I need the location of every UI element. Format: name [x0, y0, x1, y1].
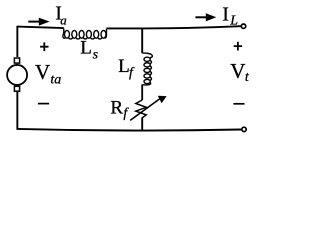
- label Rf: [110, 97, 129, 121]
- label Vta: [35, 60, 61, 88]
- wire: field branch lower: [141, 117, 143, 130]
- wire: left rail lower: [16, 92, 18, 130]
- dc machine brush top: [14, 58, 19, 63]
- svg-text:t: t: [245, 70, 250, 85]
- plus sign left: [40, 42, 48, 51]
- minus sign left: [38, 103, 49, 105]
- plus sign right: [234, 42, 242, 51]
- current arrow Ia: [28, 18, 49, 26]
- inductor Ls coil loops: [65, 30, 70, 38]
- wire: field branch upper: [141, 28, 143, 53]
- inductor Ls coil wire arcs: [63, 28, 107, 39]
- svg-text:s: s: [93, 47, 99, 62]
- dc machine armature circle: [7, 65, 27, 85]
- dc machine brush bottom: [14, 86, 19, 91]
- terminal: bottom right: [242, 127, 246, 131]
- svg-text:L: L: [118, 56, 130, 77]
- label Vt: [230, 59, 250, 85]
- svg-text:V: V: [230, 59, 245, 83]
- label Lf: [118, 56, 135, 81]
- wire: top rail left segment: [17, 27, 64, 29]
- wire: left rail upper: [16, 26, 18, 57]
- wire: bottom rail: [17, 129, 241, 131]
- svg-text:I: I: [222, 4, 229, 26]
- wire: field branch middle: [141, 85, 143, 101]
- inductor Lf coil wire arcs: [142, 53, 152, 85]
- label IL: [222, 4, 238, 29]
- resistor Rf zigzag: [136, 100, 147, 118]
- label Ls: [80, 37, 98, 62]
- svg-text:a: a: [60, 13, 67, 28]
- terminal: top right: [241, 24, 245, 28]
- svg-text:V: V: [35, 60, 50, 84]
- svg-text:R: R: [110, 97, 123, 118]
- svg-text:f: f: [123, 106, 129, 121]
- svg-text:ta: ta: [50, 73, 61, 88]
- inductor Lf coil loops: [144, 57, 150, 61]
- label Ia: [55, 2, 67, 27]
- current arrow IL: [195, 13, 216, 21]
- svg-text:f: f: [129, 65, 135, 80]
- wire: top rail right segment: [106, 26, 240, 28]
- svg-text:L: L: [80, 37, 92, 58]
- rheostat arrow: [130, 96, 166, 121]
- svg-text:L: L: [229, 14, 238, 29]
- minus sign right: [233, 103, 244, 105]
